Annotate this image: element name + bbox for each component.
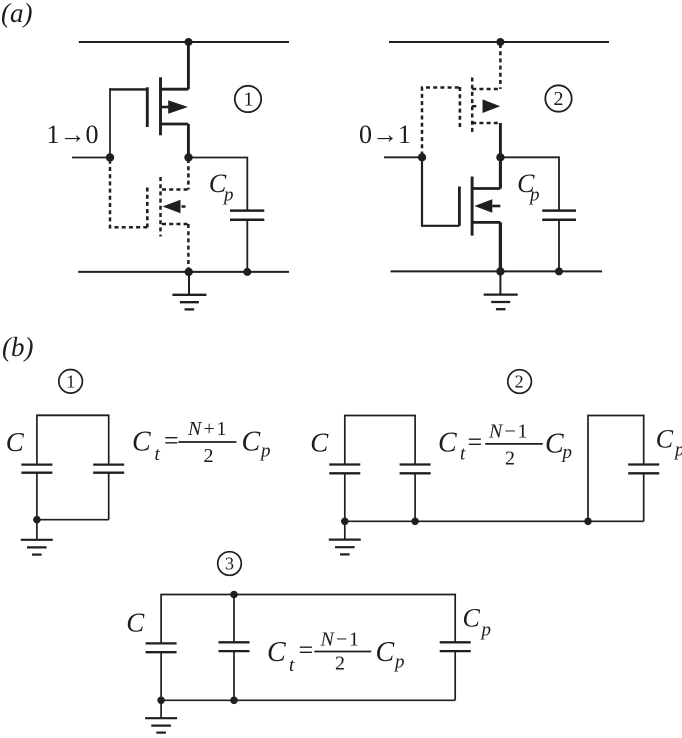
svg-text:0→1: 0→1 [359, 120, 411, 149]
svg-text:C: C [126, 608, 145, 638]
svg-text:C: C [310, 427, 329, 457]
label (b) [2, 332, 33, 362]
capacitor Cp (b3 right) [440, 594, 471, 701]
capacitor Cp equivalent (b1 right) [93, 415, 124, 520]
svg-text:C: C [463, 603, 481, 632]
source wire down to output [187, 124, 190, 158]
node: source/rail circuit 2 [496, 267, 504, 275]
channel bar [159, 177, 162, 237]
svg-text:p: p [393, 651, 405, 672]
svg-text:2: 2 [335, 653, 345, 675]
svg-text:1→0: 1→0 [47, 120, 99, 149]
svg-text:p: p [673, 439, 682, 460]
formula Ct=(N−1)/2·Cp (b2) [438, 420, 572, 469]
svg-text:N: N [320, 628, 336, 650]
svg-text:(b): (b) [2, 332, 33, 362]
svg-text:3: 3 [225, 554, 234, 574]
label Cp circuit 2 [517, 169, 539, 206]
source wire down to output (solid) [499, 123, 502, 157]
gate lead wire [422, 157, 459, 226]
input wire circuit 1 [72, 157, 110, 159]
top wire (b1) [37, 414, 109, 416]
svg-text:1: 1 [244, 89, 254, 111]
formula Ct=(N+1)/2·Cp (b1) [132, 418, 271, 467]
svg-text:2: 2 [505, 447, 515, 469]
body arrow pointing left [474, 199, 492, 212]
source stub [472, 221, 500, 224]
marker circled 3 (b) [218, 552, 242, 576]
ground rail circuit 1 [78, 271, 289, 273]
top wire (b3) [161, 594, 455, 596]
node: input gate junction circuit 2 [418, 153, 426, 161]
gate bar [458, 187, 461, 226]
capacitor C (b2 left) [329, 415, 360, 522]
fraction bar (b1) [178, 441, 236, 443]
wire output to capacitor circuit 2 [500, 157, 559, 209]
drain wire up to VDD [499, 44, 502, 89]
svg-text:=: = [164, 426, 179, 455]
label C (b1) [6, 427, 25, 457]
channel bar [471, 177, 474, 236]
svg-text:C: C [376, 637, 395, 668]
drain stub [162, 188, 188, 191]
svg-text:2: 2 [515, 372, 524, 392]
svg-text:1: 1 [349, 628, 359, 650]
svg-text:=: = [299, 636, 314, 665]
node: capacitor/rail circuit 2 [555, 267, 563, 275]
svg-text:1: 1 [66, 371, 75, 391]
drain stub [472, 88, 500, 91]
svg-text:(a): (a) [1, 0, 32, 28]
ground symbol (b1) [21, 520, 53, 555]
right branch wire (b2) [588, 416, 644, 522]
source stub [472, 122, 500, 125]
svg-text:t: t [460, 444, 466, 465]
transistor NMOS (conducting, solid) circuit 2 [422, 157, 500, 271]
transistor NMOS (off, dashed) circuit 1 [110, 159, 188, 272]
ground symbol (b2) [329, 521, 361, 554]
drain wire from output node [187, 159, 190, 190]
svg-text:t: t [155, 444, 161, 465]
node: VDD/drain junction circuit 2 [496, 38, 504, 46]
svg-text:=: = [468, 427, 483, 456]
drain stub [472, 187, 500, 190]
node: middle cap junction (b2) [411, 518, 419, 526]
node: ground junction (b2) [341, 518, 349, 526]
body arrow pointing right [472, 105, 479, 108]
svg-text:C: C [656, 424, 674, 453]
svg-text:1: 1 [518, 420, 528, 442]
ground symbol (b3) [145, 700, 177, 732]
body arrow pointing left [163, 200, 181, 213]
transistor PMOS (off, dashed) circuit 2 [422, 44, 500, 157]
node: output circuit 1 [184, 153, 192, 161]
node: input gate junction circuit 1 [106, 153, 114, 161]
marker circled 1 [235, 86, 261, 112]
svg-text:p: p [561, 442, 573, 463]
capacitor C (b3 left) [146, 594, 177, 701]
bottom wire (b3) [161, 699, 455, 701]
VDD rail circuit 2 [389, 41, 609, 43]
channel bar [159, 77, 162, 135]
svg-text:C: C [545, 429, 564, 460]
node: VDD/drain junction circuit 1 [185, 38, 193, 46]
label (a) [1, 0, 32, 28]
node: ground junction (b1) [33, 516, 41, 524]
gate lead wire [110, 159, 147, 227]
drain stub [161, 88, 189, 91]
svg-text:2: 2 [554, 88, 564, 110]
capacitor Cp circuit 1 [230, 211, 264, 272]
gate bar [459, 87, 462, 127]
node: ground junction (b3) [157, 697, 165, 705]
svg-text:1: 1 [217, 418, 227, 440]
node: source/rail circuit 1 [185, 268, 193, 276]
formula Ct=(N−1)/2·Cp (b3) [267, 628, 405, 675]
fraction bar (b3) [314, 651, 371, 653]
input wire circuit 2 [384, 156, 422, 158]
node: right branch junction (b2) [584, 518, 592, 526]
gate lead wire [422, 88, 460, 156]
bottom wire (b2) [345, 520, 644, 522]
svg-text:−: − [336, 628, 347, 650]
source stub [161, 123, 189, 126]
body arrow pointing right [161, 106, 172, 109]
source wire down to rail [187, 224, 190, 272]
svg-text:p: p [259, 441, 271, 462]
bottom wire (b1) [37, 519, 109, 521]
input label 0→1 [359, 120, 411, 149]
svg-text:+: + [204, 418, 215, 440]
svg-text:C: C [267, 637, 286, 668]
label C (b3) [126, 608, 145, 638]
source wire down to rail [499, 222, 502, 271]
svg-text:N: N [187, 418, 203, 440]
marker circled 1 (b) [59, 370, 83, 394]
marker circled 2 (b) [508, 370, 532, 394]
label Cp circuit 1 [209, 169, 234, 205]
marker circled 2 [545, 85, 571, 111]
svg-text:N: N [488, 420, 504, 442]
capacitor C (b1 left) [21, 415, 52, 520]
capacitor Cp circuit 2 [542, 211, 576, 272]
svg-text:C: C [242, 427, 261, 458]
channel bar [471, 78, 474, 135]
node: middle cap bottom junction (b3) [230, 697, 238, 705]
source stub [162, 223, 188, 226]
svg-text:C: C [6, 427, 25, 457]
input label 1→0 [47, 120, 99, 149]
drain wire from output node [499, 157, 502, 188]
capacitor Cp (b2 right) [628, 415, 659, 522]
fraction bar (b2) [485, 443, 543, 445]
svg-text:2: 2 [204, 445, 214, 467]
label Cp (b3 right) [463, 603, 492, 640]
svg-text:C: C [132, 427, 151, 458]
svg-text:t: t [289, 655, 295, 676]
label Cp (b2 right) [656, 424, 682, 460]
label C (b2) [310, 427, 329, 457]
gate lead wire [109, 88, 111, 158]
ground rail circuit 2 [391, 270, 603, 272]
drain wire up to VDD [187, 42, 190, 89]
svg-text:p: p [222, 185, 234, 206]
node: top junction (b3) [230, 591, 238, 599]
node: capacitor/rail circuit 1 [243, 268, 251, 276]
svg-text:C: C [438, 427, 457, 458]
transistor PMOS (conducting, solid) circuit 1 [110, 42, 188, 158]
gate bar [146, 188, 149, 228]
wire output to capacitor circuit 1 [189, 158, 248, 210]
capacitor middle (b3) [219, 595, 250, 701]
node: output circuit 2 [496, 153, 504, 161]
svg-text:−: − [505, 420, 516, 442]
svg-text:p: p [528, 184, 540, 205]
gate bar [146, 87, 149, 127]
svg-text:p: p [480, 620, 492, 641]
top wire (b2) [345, 415, 415, 417]
capacitor second (b2 middle) [400, 415, 431, 522]
VDD rail circuit 1 [79, 41, 289, 43]
ground symbol circuit 1 [172, 272, 206, 310]
ground symbol circuit 2 [484, 271, 518, 309]
